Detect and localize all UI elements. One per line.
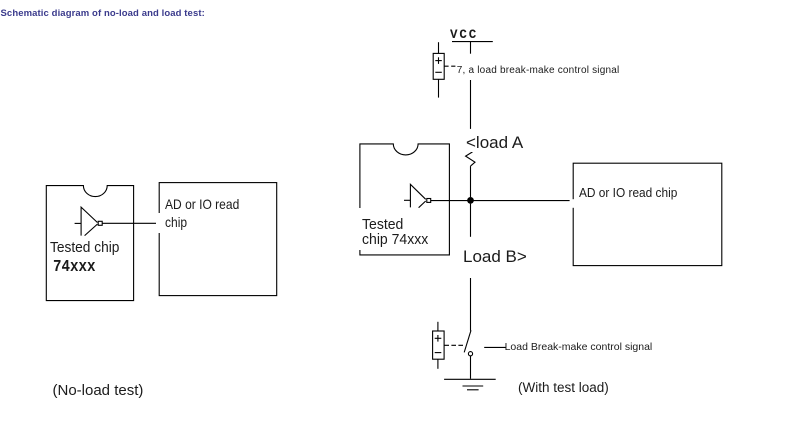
label: load A control signal text	[456, 54, 623, 80]
label: (With test load)	[518, 380, 609, 395]
label: Load B	[461, 237, 531, 278]
op-amp/inverter U1 (no-load tested chip)	[75, 222, 82, 224]
label: Tested chip (left)	[50, 239, 126, 256]
switch S1 contact	[468, 352, 472, 356]
label: 74xxx (left)	[53, 257, 103, 276]
wire: left inverter output to left AD box	[102, 222, 160, 224]
label: AD or IO read chip (right box)	[578, 185, 688, 202]
wire: switch to control label	[484, 346, 506, 348]
ground	[444, 378, 496, 380]
VCC rail	[452, 41, 493, 43]
tested chip U1 box (no-load)	[46, 186, 133, 301]
title	[1, 8, 205, 19]
wire: squiggle to junction	[470, 166, 472, 197]
label: AD or IO read (left box, line 1)	[164, 194, 255, 213]
battery B1 (load A control source)	[438, 42, 440, 53]
label: (No-load test)	[53, 382, 144, 399]
wire: main horizontal output bus	[431, 200, 573, 202]
wire: junction down to Load B	[470, 204, 472, 237]
wire: dashed control link from B2 to switch	[444, 344, 463, 346]
right AD or IO read chip box	[573, 163, 722, 265]
resistor / break squiggle load A	[466, 152, 475, 166]
battery B2 (load B control source)	[437, 322, 439, 331]
wire: dashed control link from B1	[444, 65, 458, 67]
white gap at wire entry	[570, 199, 575, 208]
wire: switch contact to ground	[470, 356, 472, 379]
label: load A	[463, 131, 527, 152]
switch S1 lever	[464, 330, 471, 352]
op-amp/inverter U2 (loaded tested chip)	[404, 199, 410, 201]
node junction dot	[467, 197, 474, 204]
label: VCC	[450, 28, 478, 42]
left AD or IO read chip box	[159, 183, 277, 296]
tested chip U2 box (with load)	[360, 144, 450, 255]
wire: main vertical from VCC to load A	[470, 80, 472, 129]
wire: Load B down to switch	[470, 278, 472, 331]
wire: VCC rail tick down	[470, 42, 472, 54]
label: Tested chip 74xxx (right)	[350, 208, 437, 250]
label: chip (left box, line 2)	[156, 213, 194, 233]
label: Load Break-make control signal	[505, 341, 653, 353]
